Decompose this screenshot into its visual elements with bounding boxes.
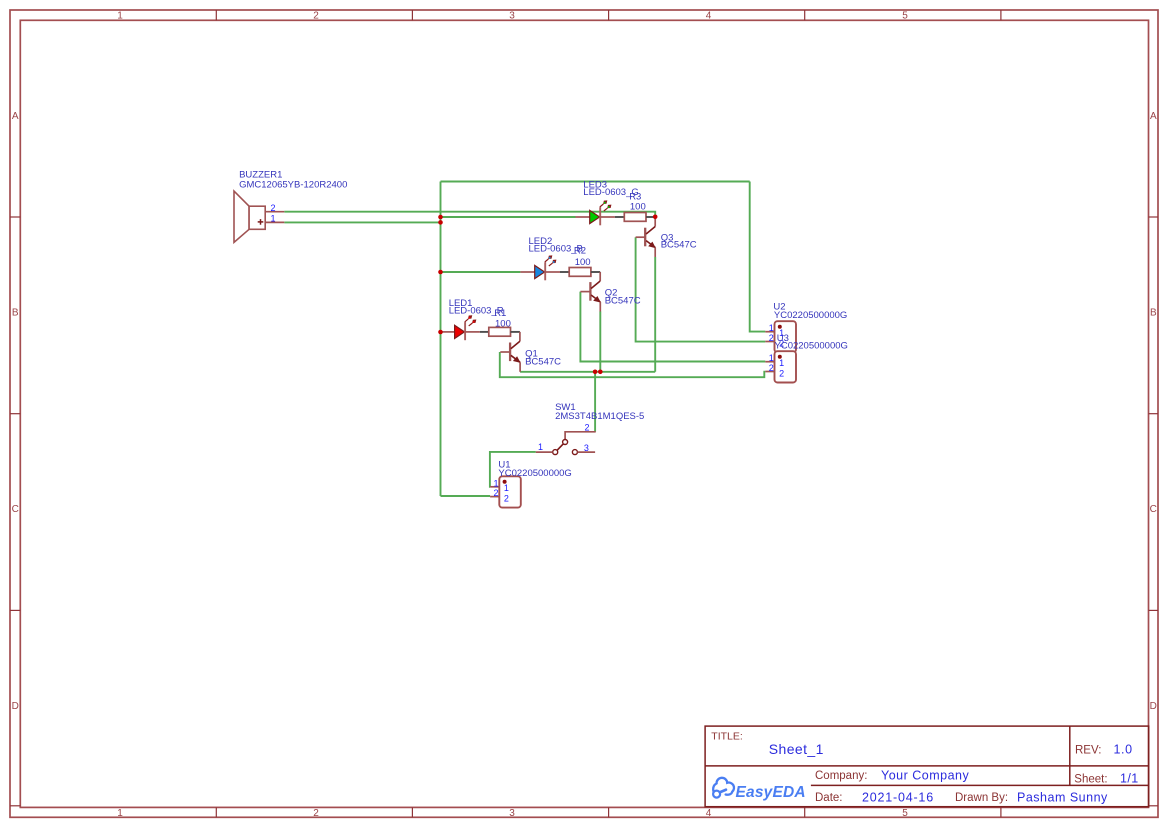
- junction node SW1 branch: [593, 370, 598, 375]
- svg-text:EasyEDA: EasyEDA: [736, 784, 806, 801]
- svg-text:5: 5: [902, 11, 908, 22]
- transistor Q3: [636, 217, 656, 257]
- wire SW1 pin1 to U1 pin1: [490, 452, 536, 487]
- svg-text:4: 4: [706, 11, 712, 22]
- frame column numbers bottom: [117, 808, 908, 819]
- junction node Q2 emitter: [598, 370, 603, 375]
- svg-text:Sheet_1: Sheet_1: [769, 741, 824, 757]
- svg-text:D: D: [1150, 701, 1157, 712]
- connector U3: [765, 351, 796, 382]
- frame column numbers top: [117, 11, 908, 22]
- wire emitter bus: [520, 371, 655, 373]
- title block: [705, 726, 1149, 807]
- svg-text:YC0220500000G: YC0220500000G: [775, 341, 848, 352]
- LED2: [520, 254, 560, 280]
- svg-text:3: 3: [509, 11, 515, 22]
- svg-text:BC547C: BC547C: [661, 239, 697, 250]
- EasyEDA logo: [713, 778, 806, 801]
- switch SW1: [536, 432, 596, 455]
- svg-text:2021-04-16: 2021-04-16: [862, 791, 934, 805]
- svg-text:2: 2: [769, 363, 774, 373]
- svg-text:R2: R2: [574, 246, 586, 257]
- svg-text:YC0220500000G: YC0220500000G: [774, 310, 847, 321]
- resistor R3: [615, 213, 655, 222]
- connector U2: [765, 321, 796, 352]
- svg-text:BC547C: BC547C: [525, 357, 561, 368]
- frame ticks bottom: [216, 807, 1001, 817]
- svg-text:2: 2: [769, 333, 774, 343]
- svg-text:1: 1: [538, 442, 543, 452]
- junction node LED2 row / left rail: [438, 270, 443, 275]
- svg-text:GMC12065YB-120R2400: GMC12065YB-120R2400: [239, 179, 347, 190]
- frame ticks top: [216, 10, 1001, 20]
- wire buzzer pin2 to R3 right node: [284, 212, 655, 217]
- svg-text:YC0220500000G: YC0220500000G: [498, 468, 571, 479]
- svg-text:4: 4: [706, 808, 712, 819]
- wire to SW1 pin2: [594, 372, 596, 432]
- svg-text:BC547C: BC547C: [605, 296, 641, 307]
- svg-text:1: 1: [779, 358, 784, 368]
- connector U1: [490, 476, 521, 507]
- svg-text:2: 2: [779, 368, 784, 378]
- frame row letters left: [12, 111, 19, 712]
- wire Q2 emitter drop: [599, 311, 601, 371]
- svg-text:Sheet:: Sheet:: [1074, 773, 1107, 785]
- wire Q1 base loop to U3 pin2: [500, 352, 766, 377]
- svg-text:TITLE:: TITLE:: [711, 731, 743, 743]
- LED1: [441, 314, 480, 340]
- svg-text:100: 100: [495, 318, 511, 329]
- svg-text:2: 2: [313, 808, 319, 819]
- wire Q3 emitter drop: [654, 257, 656, 372]
- wire Q2 base to U3 pin1: [580, 292, 765, 362]
- svg-text:1: 1: [271, 214, 276, 224]
- svg-text:1: 1: [769, 353, 774, 363]
- svg-text:1: 1: [117, 11, 123, 22]
- LED3: [576, 199, 615, 225]
- svg-text:1: 1: [117, 808, 123, 819]
- svg-text:REV:: REV:: [1075, 745, 1101, 757]
- resistor R2: [560, 268, 600, 277]
- svg-text:Your Company: Your Company: [881, 769, 969, 783]
- wire right vertical to U2 pin1: [750, 182, 766, 332]
- svg-text:2: 2: [504, 493, 509, 503]
- svg-text:1: 1: [494, 478, 499, 488]
- svg-text:100: 100: [630, 202, 646, 213]
- svg-text:R1: R1: [494, 308, 506, 319]
- svg-text:Date:: Date:: [815, 792, 843, 804]
- svg-text:A: A: [1150, 111, 1157, 122]
- svg-text:B: B: [1150, 308, 1157, 319]
- svg-text:2MS3T4B1M1QES-5: 2MS3T4B1M1QES-5: [555, 411, 644, 422]
- svg-text:1.0: 1.0: [1114, 743, 1133, 757]
- wire Q3 base to U2 pin2: [636, 237, 766, 341]
- svg-text:Drawn By:: Drawn By:: [955, 792, 1008, 804]
- wire top rail: [441, 181, 750, 183]
- junction node R3 right / Q3 collector: [653, 215, 658, 220]
- wire buzzer pin1 to left rail: [284, 221, 440, 223]
- svg-text:1: 1: [504, 483, 509, 493]
- frame row letters right: [1150, 111, 1157, 712]
- transistor Q2: [580, 272, 601, 312]
- junction node LED1 row / left rail: [438, 330, 443, 335]
- svg-text:5: 5: [902, 808, 908, 819]
- frame ticks left: [10, 217, 20, 806]
- svg-text:100: 100: [575, 257, 591, 268]
- buzzer BUZZER1: [234, 191, 284, 242]
- junction node at LED3 row / left rail: [438, 215, 443, 220]
- junction node buzzer pin1 / left rail: [438, 220, 443, 225]
- frame ticks right: [1149, 217, 1159, 806]
- svg-text:B: B: [12, 308, 19, 319]
- svg-text:1/1: 1/1: [1120, 771, 1139, 785]
- svg-text:2: 2: [313, 11, 319, 22]
- svg-text:2: 2: [494, 488, 499, 498]
- svg-text:3: 3: [584, 443, 589, 453]
- svg-text:2: 2: [585, 422, 590, 432]
- wire LED2 anode row: [441, 271, 521, 273]
- svg-text:A: A: [12, 111, 19, 122]
- wire left vertical rail: [440, 182, 442, 497]
- resistor R1: [480, 327, 520, 336]
- svg-text:1: 1: [769, 323, 774, 333]
- svg-text:Pasham Sunny: Pasham Sunny: [1017, 791, 1108, 805]
- svg-text:3: 3: [509, 808, 515, 819]
- wire LED3 anode row: [441, 216, 576, 218]
- svg-text:Company:: Company:: [815, 770, 867, 782]
- svg-text:C: C: [12, 504, 19, 515]
- svg-text:C: C: [1150, 504, 1157, 515]
- transistor Q1: [500, 332, 520, 372]
- wire to U1 pin2: [441, 495, 491, 497]
- svg-text:2: 2: [271, 203, 276, 213]
- svg-text:D: D: [12, 701, 19, 712]
